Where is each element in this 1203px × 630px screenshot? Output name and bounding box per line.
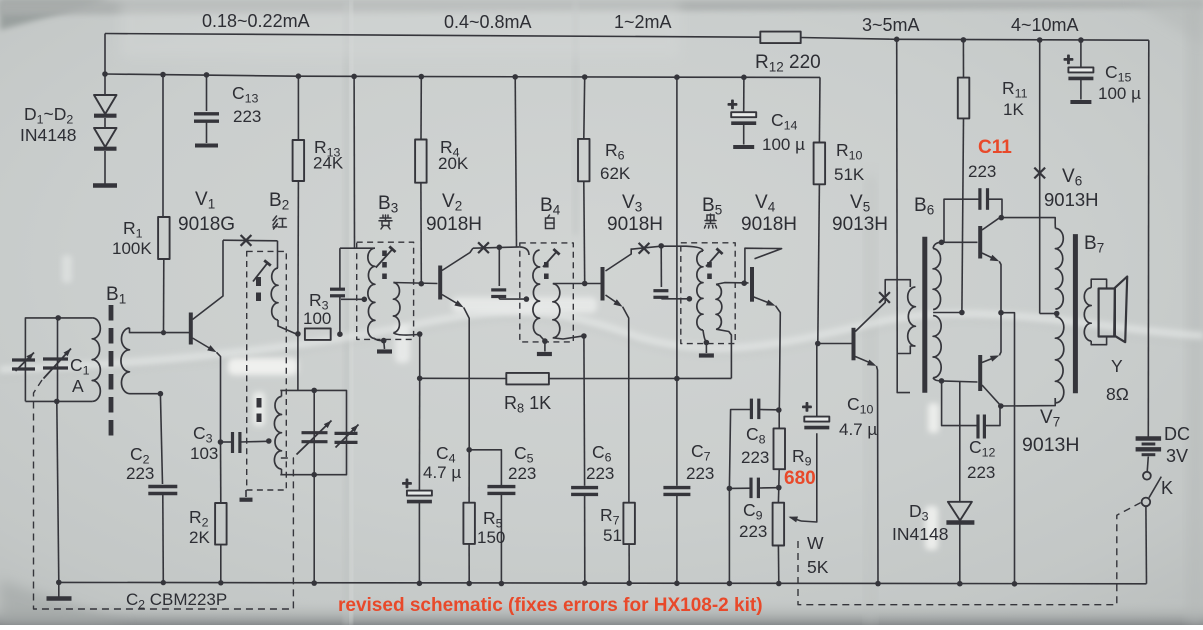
- wire V3 collector to B5: [631, 246, 686, 249]
- ground B4: [544, 341, 546, 351]
- svg-text:4.7 µ: 4.7 µ: [423, 463, 461, 482]
- svg-text:150: 150: [477, 528, 505, 547]
- wire B6 secondary bottom to V7 base: [933, 378, 941, 381]
- svg-text:223: 223: [739, 522, 767, 541]
- resistor R2: [220, 442, 222, 503]
- svg-text:+: +: [1064, 50, 1074, 69]
- tap wire B4: [499, 298, 526, 300]
- coil B2 secondary: [274, 396, 281, 469]
- svg-text:223: 223: [508, 464, 536, 483]
- transformer B5 box: [681, 243, 735, 344]
- wire B7 secondary to speaker: [1091, 279, 1106, 288]
- wire emitters to ground: [1001, 313, 1015, 584]
- gang ground tab: [245, 490, 247, 497]
- capacitor C14 electrolytic: [743, 77, 745, 112]
- svg-text:223: 223: [586, 464, 614, 483]
- potentiometer W 5K: [777, 488, 779, 503]
- coil B7 primary upper: [1055, 228, 1063, 309]
- core B1: [109, 305, 114, 441]
- variable capacitor C1-A main: [43, 357, 68, 360]
- capacitor C9: [727, 486, 733, 492]
- capacitor C5: [469, 450, 501, 485]
- wire B4 secondary top to V3 base: [553, 283, 601, 285]
- transistor V2 collector: [442, 248, 473, 270]
- transistor V6 base bar: [978, 226, 982, 259]
- svg-text:62K: 62K: [600, 164, 631, 183]
- wire V7 collector to B7: [1001, 398, 1055, 406]
- svg-text:IN4148: IN4148: [892, 524, 948, 544]
- label hong red char for B2: [273, 216, 278, 229]
- transistor V1 emitter: [193, 338, 214, 351]
- wire rail2 down to bias node: [676, 77, 678, 378]
- wire B4 secondary bottom to C6: [553, 336, 582, 339]
- transistor V7 emitter: [982, 357, 997, 363]
- core B7: [1073, 234, 1078, 393]
- test point x mark V1: [241, 235, 252, 246]
- transistor V6 emitter: [982, 253, 997, 260]
- capacitor C15 electrolytic: [1080, 40, 1082, 67]
- wire battery positive riser: [1147, 40, 1150, 437]
- battery DC 3V: [1136, 436, 1162, 440]
- svg-text:2K: 2K: [189, 528, 210, 547]
- transistor V6 collector: [982, 218, 1000, 230]
- wire osc feedback to C1-B loop: [297, 334, 299, 391]
- resistor R7: [623, 503, 635, 544]
- coil B3 primary: [368, 248, 375, 338]
- resistor R13: [293, 140, 305, 181]
- wire C1-B to ground rail: [313, 475, 315, 583]
- capacitor inside B3 line: [339, 297, 341, 334]
- wire second supply rail: [105, 74, 820, 77]
- ground below D2: [104, 151, 106, 184]
- wire B4 resonant cap line: [498, 247, 500, 286]
- capacitor C13: [206, 75, 208, 111]
- core dashes B2 lower: [257, 398, 262, 422]
- svg-text:223: 223: [126, 464, 154, 483]
- coil B1 primary winding: [92, 318, 100, 402]
- svg-text:1~2mA: 1~2mA: [614, 12, 672, 32]
- svg-text:revised schematic (fixes error: revised schematic (fixes errors for HX10…: [338, 595, 763, 616]
- transistor V4 base bar: [750, 267, 754, 302]
- capacitor C2: [148, 485, 177, 488]
- wire rail2 into B3: [353, 76, 355, 248]
- capacitor C11: [978, 188, 981, 210]
- capacitor C4 electrolytic: [418, 378, 420, 490]
- transistor V7 collector: [982, 385, 1000, 405]
- resistor R8: [506, 373, 549, 385]
- capacitor C10 electrolytic: [804, 417, 829, 422]
- svg-text:223: 223: [686, 464, 714, 483]
- capacitor C7: [676, 379, 678, 486]
- variable capacitor C1-B main: [302, 431, 328, 434]
- resistor R11: [962, 40, 964, 78]
- wire B3 secondary top to V2 base: [393, 283, 437, 284]
- node top rail junctions: [894, 37, 900, 43]
- coil B6 secondary lower: [933, 316, 941, 378]
- coil B4 primary: [520, 247, 529, 255]
- core B6: [922, 237, 927, 393]
- wire B2 primary bottom to R3: [278, 320, 296, 334]
- label bai white char for B4: [548, 215, 550, 218]
- ground at gang frame: [58, 582, 60, 596]
- coil B6 primary: [908, 287, 916, 346]
- transistor V5 base bar: [852, 328, 856, 361]
- label huang yellow char for B3: [380, 215, 391, 221]
- wire rail2 corner down to R10: [819, 76, 821, 78]
- resistor R12: [760, 32, 800, 43]
- svg-text:100 µ: 100 µ: [762, 135, 805, 154]
- coil B5 secondary: [716, 284, 722, 329]
- transistor V2 base bar: [438, 266, 442, 300]
- coil B4 secondary: [553, 284, 560, 338]
- svg-text:D1~D2: D1~D2: [24, 104, 73, 127]
- ground B3: [383, 341, 386, 349]
- wiper arrow W: [801, 433, 817, 522]
- svg-text:1K: 1K: [1003, 100, 1024, 119]
- wire B5 primary bottom to ground: [703, 330, 706, 341]
- transistor V3 base bar: [601, 267, 605, 301]
- coil B2 primary: [277, 241, 279, 268]
- wire B4 primary bottom to ground: [540, 335, 545, 341]
- coil B6 secondary upper: [933, 249, 941, 310]
- resistor R3: [305, 328, 331, 340]
- transistor V7 base bar: [978, 355, 982, 391]
- slug arrow B4: [543, 252, 557, 267]
- capacitor C3: [218, 439, 224, 445]
- coil B5 primary: [686, 246, 703, 251]
- svg-text:Y: Y: [1111, 356, 1123, 376]
- wire B1 secondary top to V1 base: [130, 328, 190, 333]
- slug arrow B3: [376, 249, 393, 267]
- svg-text:100: 100: [303, 309, 331, 328]
- svg-text:223: 223: [233, 107, 261, 126]
- svg-text:0.4~0.8mA: 0.4~0.8mA: [444, 12, 532, 32]
- svg-text:51K: 51K: [834, 165, 865, 184]
- transistor V4 emitter: [754, 297, 773, 304]
- resistor R6: [583, 77, 586, 139]
- speaker Y: [1099, 289, 1115, 337]
- resistor R9: [774, 428, 786, 469]
- transformer B3 box: [357, 242, 414, 339]
- resistor R4: [420, 77, 422, 140]
- wire V1 collector to B2: [223, 239, 278, 242]
- svg-text:+: +: [728, 95, 738, 114]
- core dashes B2 upper: [256, 277, 261, 301]
- node rail2 junctions: [102, 71, 108, 77]
- wire B6 primary bottom to supply: [897, 346, 915, 354]
- wire to B3 primary top: [340, 247, 375, 249]
- svg-text:9018H: 9018H: [741, 214, 797, 235]
- switch K: [1147, 457, 1148, 472]
- svg-text:DC: DC: [1164, 424, 1190, 444]
- svg-text:3~5mA: 3~5mA: [862, 15, 920, 35]
- svg-text:R12 220: R12 220: [755, 52, 821, 75]
- core dashes B5: [707, 262, 712, 282]
- coil B1 secondary winding: [121, 328, 130, 394]
- svg-text:9013H: 9013H: [1022, 434, 1079, 456]
- transistor V3 emitter: [606, 295, 620, 305]
- svg-text:W: W: [807, 533, 824, 553]
- transistor V2 emitter: [442, 295, 461, 306]
- svg-text:A: A: [72, 376, 84, 396]
- transistor V4 collector loop: [745, 248, 782, 283]
- wire B5 resonant cap line: [660, 246, 662, 287]
- wire B6 center tap: [933, 312, 962, 314]
- wire R13 bottom to R3 node: [297, 76, 299, 140]
- node V2 emitter R5 C5: [466, 447, 472, 453]
- core dashes B3: [382, 251, 387, 282]
- svg-text:4~10mA: 4~10mA: [1011, 15, 1079, 35]
- svg-text:100 µ: 100 µ: [1098, 84, 1141, 103]
- svg-text:R8 1K: R8 1K: [504, 393, 551, 416]
- wire AGC vertical: [419, 334, 421, 378]
- dashed link W to K: [798, 503, 1141, 605]
- wire supply x line to B7 center tap: [1039, 40, 1041, 218]
- svg-text:103: 103: [190, 444, 218, 463]
- wire V2 collector to B4: [473, 247, 520, 248]
- svg-text:C11: C11: [978, 137, 1012, 158]
- coil B3 secondary: [393, 283, 400, 333]
- wire B5 secondary bottom to AGC: [716, 329, 731, 378]
- svg-text:223: 223: [968, 162, 996, 181]
- svg-text:9018G: 9018G: [178, 214, 235, 235]
- transformer B2 shield box: [247, 251, 287, 490]
- diode D2: [104, 118, 106, 128]
- svg-text:680: 680: [784, 468, 816, 489]
- wire gang frame to ground rail: [57, 401, 59, 582]
- svg-text:24K: 24K: [313, 154, 344, 173]
- wire B1 secondary bottom to C2: [130, 393, 161, 395]
- transistor V5 emitter: [855, 357, 873, 365]
- svg-text:51: 51: [603, 526, 622, 545]
- transistor V5 collector: [855, 280, 910, 332]
- core dashes B4: [544, 262, 549, 282]
- svg-text:0.18~0.22mA: 0.18~0.22mA: [202, 11, 310, 31]
- svg-text:3V: 3V: [1166, 446, 1188, 466]
- wire V6 collector to B7: [1001, 218, 1055, 224]
- svg-text:8Ω: 8Ω: [1106, 384, 1129, 404]
- capacitor C12: [976, 415, 979, 439]
- wire B3 primary bottom to ground: [375, 339, 384, 341]
- wire B3 secondary bottom to AGC node: [393, 333, 417, 335]
- svg-text:4.7 µ: 4.7 µ: [839, 420, 877, 439]
- resistor R1: [162, 75, 164, 217]
- transistor V1 collector: [193, 240, 224, 319]
- label hei black char for B5: [707, 215, 714, 221]
- svg-text:9013H: 9013H: [1044, 189, 1099, 210]
- variable capacitor C1-A trimmer: [12, 358, 35, 361]
- slug arrow B2: [253, 263, 268, 282]
- svg-text:9018H: 9018H: [607, 214, 663, 235]
- wire AGC line with R8: [420, 377, 507, 379]
- slug arrow B5: [706, 251, 720, 266]
- ground B5: [705, 343, 707, 354]
- svg-text:IN4148: IN4148: [20, 125, 76, 145]
- tap wire B5: [661, 298, 689, 300]
- coil B7 secondary: [1084, 288, 1091, 341]
- svg-text:9013H: 9013H: [832, 214, 888, 235]
- wire supply drop to B6: [896, 39, 899, 353]
- transistor V1 base bar: [189, 313, 193, 345]
- diode D3: [959, 382, 961, 502]
- dashed gang enclosure: [34, 380, 294, 609]
- tuning gang C1 section A loop: [25, 318, 92, 402]
- svg-text:+: +: [802, 398, 812, 417]
- wire top supply rail: [105, 34, 760, 38]
- svg-text:+: +: [402, 474, 412, 493]
- transistor V3 collector: [606, 248, 632, 271]
- wire V5 base: [818, 343, 852, 345]
- tuning loop C1 section B: [280, 390, 346, 474]
- svg-text:100K: 100K: [112, 239, 152, 258]
- wire B5 secondary top to V4 base: [716, 283, 749, 285]
- wire ground rail: [59, 582, 1147, 583]
- diode D1: [104, 74, 106, 95]
- svg-text:20K: 20K: [438, 154, 469, 173]
- svg-text:9018H: 9018H: [426, 214, 482, 235]
- variable capacitor C1-B trimmer: [335, 432, 358, 435]
- wire rail2 into B4: [515, 77, 516, 247]
- transformer B4 box: [520, 243, 574, 342]
- capacitor C6: [583, 336, 586, 486]
- wire B6 secondary top to V6 base: [933, 242, 941, 248]
- resistor R10: [818, 77, 821, 142]
- wire left supply drop: [104, 34, 106, 75]
- tap wire B3: [341, 298, 364, 300]
- svg-text:223: 223: [967, 463, 995, 482]
- resistor R5: [463, 503, 475, 544]
- svg-text:223: 223: [741, 448, 769, 467]
- coil B7 primary lower: [1055, 317, 1063, 403]
- svg-text:5K: 5K: [807, 557, 829, 577]
- capacitor C8: [750, 399, 753, 420]
- svg-text:K: K: [1161, 478, 1173, 498]
